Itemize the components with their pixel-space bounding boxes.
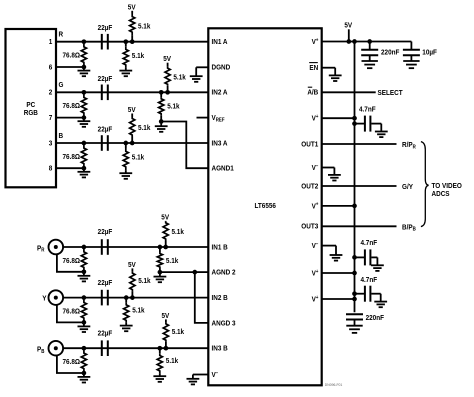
svg-text:V+: V+: [312, 294, 319, 303]
svg-text:R/PR: R/PR: [402, 142, 416, 151]
svg-text:5V: 5V: [162, 313, 170, 321]
svg-text:DN096-F01: DN096-F01: [325, 383, 343, 387]
svg-text:V+: V+: [312, 268, 319, 277]
svg-text:5V: 5V: [128, 107, 136, 115]
svg-text:5.1k: 5.1k: [132, 154, 145, 162]
svg-text:76.8Ω: 76.8Ω: [62, 258, 80, 266]
svg-text:PB: PB: [37, 346, 45, 355]
svg-text:5.1k: 5.1k: [166, 258, 179, 266]
svg-text:IN2 A: IN2 A: [211, 89, 227, 97]
svg-text:22µF: 22µF: [98, 75, 113, 83]
svg-text:5.1k: 5.1k: [173, 74, 186, 82]
svg-text:76.8Ω: 76.8Ω: [62, 52, 80, 60]
svg-text:TO VIDEO: TO VIDEO: [432, 182, 463, 190]
svg-text:IN1 B: IN1 B: [211, 244, 227, 252]
svg-text:10µF: 10µF: [422, 49, 437, 57]
svg-text:AGND 2: AGND 2: [211, 269, 235, 277]
svg-text:B/PB: B/PB: [402, 224, 416, 233]
svg-text:5.1k: 5.1k: [167, 103, 180, 111]
svg-text:76.8Ω: 76.8Ω: [62, 308, 80, 316]
svg-text:2: 2: [49, 89, 53, 97]
svg-text:5.1k: 5.1k: [138, 278, 151, 286]
svg-text:ANGD 3: ANGD 3: [211, 320, 235, 328]
svg-text:R: R: [58, 31, 63, 39]
svg-text:V+: V+: [312, 37, 319, 46]
svg-text:VREF: VREF: [211, 115, 224, 124]
svg-text:76.8Ω: 76.8Ω: [62, 153, 80, 161]
svg-text:A/B: A/B: [307, 89, 318, 97]
svg-text:IN1 A: IN1 A: [211, 39, 227, 47]
svg-text:5.1k: 5.1k: [166, 358, 179, 366]
svg-text:DGND: DGND: [211, 64, 230, 72]
svg-text:5.1k: 5.1k: [132, 53, 145, 61]
svg-text:V−: V−: [211, 370, 218, 379]
svg-text:B: B: [58, 133, 63, 141]
svg-text:22µF: 22µF: [98, 25, 113, 33]
svg-text:22µF: 22µF: [98, 330, 113, 338]
svg-text:220nF: 220nF: [366, 315, 384, 323]
svg-text:IN3 B: IN3 B: [211, 345, 227, 353]
svg-text:5.1k: 5.1k: [172, 329, 185, 337]
svg-text:5.1k: 5.1k: [171, 229, 184, 237]
svg-text:22µF: 22µF: [98, 126, 113, 134]
svg-text:RGB: RGB: [24, 110, 38, 118]
svg-text:SELECT: SELECT: [378, 90, 404, 98]
svg-text:IN3 A: IN3 A: [211, 140, 227, 148]
svg-text:6: 6: [49, 64, 53, 72]
svg-text:5.1k: 5.1k: [138, 23, 151, 31]
svg-text:G: G: [58, 82, 63, 90]
svg-text:8: 8: [49, 165, 53, 173]
svg-text:LT6556: LT6556: [254, 203, 276, 211]
svg-text:5.1k: 5.1k: [138, 125, 151, 133]
svg-text:4.7nF: 4.7nF: [361, 240, 378, 248]
svg-text:5V: 5V: [161, 214, 169, 222]
svg-text:76.8Ω: 76.8Ω: [62, 359, 80, 367]
svg-text:Y: Y: [42, 295, 47, 303]
svg-text:ADCS: ADCS: [432, 191, 450, 199]
svg-text:4.7nF: 4.7nF: [359, 106, 376, 114]
svg-text:V−: V−: [312, 241, 319, 250]
svg-text:22µF: 22µF: [98, 229, 113, 237]
svg-text:5.1k: 5.1k: [132, 307, 145, 315]
svg-text:4.7nF: 4.7nF: [361, 277, 378, 285]
svg-text:5V: 5V: [128, 4, 136, 12]
svg-text:220nF: 220nF: [381, 49, 399, 57]
svg-text:AGND1: AGND1: [211, 165, 233, 173]
svg-text:5V: 5V: [128, 262, 136, 270]
svg-text:OUT1: OUT1: [301, 141, 318, 149]
svg-text:V−: V−: [312, 163, 319, 172]
svg-text:G/Y: G/Y: [402, 184, 413, 192]
svg-text:IN2 B: IN2 B: [211, 295, 227, 303]
svg-text:7: 7: [49, 115, 53, 123]
svg-text:PC: PC: [26, 102, 35, 110]
svg-text:OUT3: OUT3: [301, 223, 318, 231]
svg-text:V+: V+: [312, 201, 319, 210]
svg-text:PR: PR: [37, 245, 45, 254]
svg-text:5V: 5V: [344, 22, 352, 30]
svg-text:3: 3: [49, 140, 53, 148]
svg-text:22µF: 22µF: [98, 279, 113, 287]
svg-text:1: 1: [49, 39, 53, 47]
svg-text:V+: V+: [312, 114, 319, 123]
svg-text:OUT2: OUT2: [301, 183, 318, 191]
svg-text:76.8Ω: 76.8Ω: [62, 103, 80, 111]
svg-text:5V: 5V: [163, 56, 171, 64]
svg-text:EN: EN: [309, 65, 318, 73]
